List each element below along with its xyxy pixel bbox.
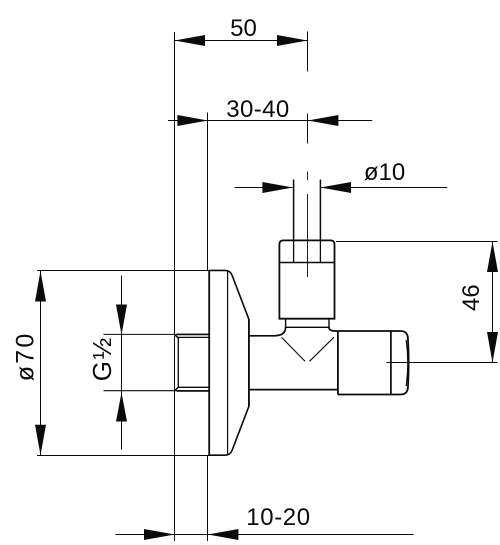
svg-text:10-20: 10-20	[246, 504, 310, 531]
outlet spout block	[337, 331, 339, 395]
washer ring under nut	[286, 319, 329, 328]
dimension 46 vertical line	[492, 242, 494, 363]
wire: o70 top extension	[37, 270, 210, 272]
outlet cap separation line	[390, 331, 392, 395]
wire: o70 bottom extension	[37, 455, 210, 457]
valve body top edge with fillets	[249, 327, 286, 336]
svg-text:50: 50	[230, 15, 257, 42]
wire: long left extension line (thread end face, 50 / 10-20 datum)	[174, 32, 176, 541]
svg-text:ø70: ø70	[12, 332, 40, 382]
arrow G1/2 bottom	[116, 393, 127, 422]
dimension o70 vertical line	[40, 271, 42, 455]
dimension 30-40 line	[168, 120, 372, 122]
arrow o10 right	[321, 182, 352, 193]
svg-text:46: 46	[458, 284, 485, 311]
arrow 46 top	[487, 242, 498, 273]
dimension 50 line	[175, 40, 308, 42]
arrow 10-20 left	[144, 529, 175, 540]
svg-text:ø10: ø10	[364, 159, 405, 186]
wire: 30-40 left extension	[207, 113, 209, 271]
pipe o10 vertical tube	[293, 180, 295, 241]
arrow 46 bottom	[487, 332, 498, 363]
thread crest top edge	[177, 333, 210, 335]
arrow 50 left	[175, 35, 206, 46]
wire: 46 top extension	[336, 241, 497, 243]
nut inner line	[279, 262, 334, 264]
svg-text:G½: G½	[87, 336, 117, 381]
arrow 30-40 left	[177, 115, 208, 126]
arrow 10-20 right	[208, 529, 239, 540]
wire: G1/2 bottom extension	[104, 390, 210, 392]
valve body bottom edge	[249, 389, 338, 391]
dimension 10-20 line	[115, 534, 413, 536]
arrow o70 bottom	[35, 425, 46, 456]
arrow G1/2 top	[116, 305, 127, 335]
valve seat V-notch	[282, 337, 306, 361]
thread spigot G1/2 root outline	[178, 337, 209, 387]
arrow o70 top	[35, 271, 46, 302]
dimension G1/2 vertical line	[121, 276, 123, 450]
node: vertical centre axis segments of valve	[307, 32, 309, 72]
compression nut block	[279, 240, 334, 318]
dimension o10 lines	[235, 187, 293, 189]
thread chamfer bottom	[175, 387, 179, 391]
wire: 10-20 right extension	[207, 456, 209, 542]
thread chamfer top	[175, 335, 179, 339]
svg-text:30-40: 30-40	[226, 96, 289, 123]
wall flange face	[208, 270, 210, 455]
wire: outlet axis / 46 bottom extension	[387, 362, 498, 364]
wire: G1/2 top extension	[104, 333, 210, 335]
pipe inside compression nut	[293, 241, 295, 263]
flange right edge / body joint	[248, 319, 250, 406]
arrow 50 right	[277, 35, 308, 46]
wall flange cone outline	[209, 270, 249, 455]
outlet end crescent arc	[406, 340, 408, 386]
arrow o10 left	[262, 182, 293, 193]
wall flange rim inner line	[227, 270, 229, 455]
arrow 30-40 right	[308, 115, 339, 126]
thread crest bottom edge	[177, 390, 210, 392]
